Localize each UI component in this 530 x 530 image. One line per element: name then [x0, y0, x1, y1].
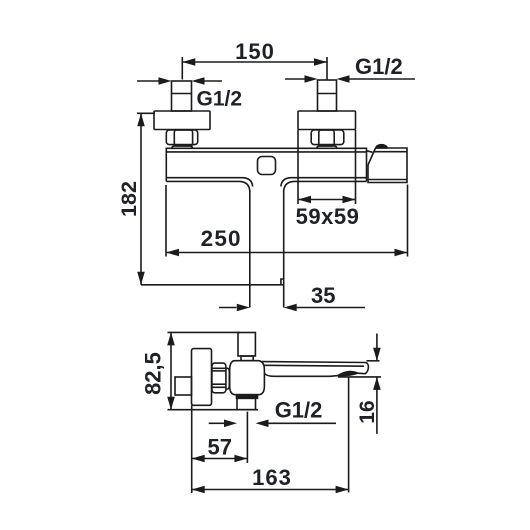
diverter knob side view [238, 333, 255, 357]
handle top inner line [374, 151, 407, 153]
svg-text:G1/2: G1/2 [355, 54, 403, 79]
handle neck diagonal [368, 148, 376, 165]
shower outlet neck [237, 395, 258, 399]
svg-text:82,5: 82,5 [141, 352, 166, 395]
wall supply stub side view [175, 377, 192, 395]
spout column left edge [249, 190, 251, 308]
dim 82,5 arrow up [167, 332, 175, 345]
dim G1/2 right-pipe arrow right [350, 78, 416, 80]
dim 82,5 bottom extension line [168, 409, 259, 411]
dim 59x59 dimension line [298, 199, 356, 201]
dim 150 extension line right (pipe 2 center) [326, 57, 328, 80]
svg-text:16: 16 [356, 400, 379, 423]
svg-text:35: 35 [311, 283, 335, 308]
dim 16 lower segment [376, 377, 378, 434]
dim 163 arrow right [336, 486, 349, 494]
dim 59x59 arrow left [298, 196, 311, 204]
dim 250 extension line right [407, 185, 409, 257]
dim G1/2 left-pipe arrow right [205, 80, 223, 82]
outlet centerline extension [246, 412, 248, 463]
left nut collar [172, 146, 193, 148]
dim 82,5 top extension line [168, 331, 241, 333]
dim 163 right extension line [348, 377, 350, 493]
dim G1/2 left-pipe arrow left [137, 80, 159, 82]
dim 82,5 dimension line [170, 332, 172, 409]
washer ring side view [226, 368, 229, 389]
dim G1/2 right-pipe arrow left [285, 78, 305, 80]
dim 35 arrow left [219, 307, 237, 309]
left inlet pipe [172, 81, 192, 111]
dim 150 arrow right [314, 58, 327, 66]
dim 57 arrow left [192, 455, 205, 463]
diverter knob neck [241, 356, 253, 361]
body bottom inner line left with fillet to spout column [166, 178, 252, 187]
spout top line [262, 361, 366, 364]
dim 59x59 extension line left [297, 130, 299, 204]
spout outlet notch [281, 279, 284, 285]
valve body barrel side view [230, 361, 265, 395]
svg-text:250: 250 [201, 226, 242, 251]
dim 182 dimension line [140, 113, 142, 284]
dim 182 top extension line [137, 112, 155, 114]
body bottom outer line left with fillet [166, 181, 250, 192]
dim 150 extension line left (pipe 1 center) [181, 57, 183, 80]
body bottom inner line right with fillet to spout column [281, 178, 367, 187]
spout tip [358, 363, 369, 374]
dim 163 dimension line [192, 489, 349, 491]
union nut side view [212, 363, 226, 393]
svg-text:G1/2: G1/2 [275, 398, 323, 423]
wall escutcheon side view [192, 349, 212, 406]
spout top chamfer line [264, 364, 365, 367]
dim 250 arrow left [166, 249, 179, 257]
dim 182 arrow down [137, 272, 145, 285]
handle pivot cap [376, 145, 387, 148]
dim 57 dimension line [192, 458, 248, 460]
bottom reference line [141, 284, 284, 286]
svg-text:G1/2: G1/2 [197, 88, 243, 111]
dim 59x59 extension line right [355, 130, 357, 204]
spout column right edge [283, 190, 285, 308]
handle neck small joint [367, 151, 373, 152]
right wall flange [298, 111, 356, 130]
dim 250 arrow right [395, 249, 408, 257]
left extension line wall face [191, 405, 193, 493]
dim 150 dimension line [182, 61, 327, 63]
svg-text:57: 57 [207, 435, 231, 460]
body bottom outer line right with fillet [284, 181, 367, 192]
dim 16 bottom extension line [338, 376, 381, 378]
dim 250 extension line left [165, 185, 167, 257]
dim G1/2 outlet arrow left [209, 422, 224, 424]
dim G1/2 outlet arrow right [269, 422, 337, 424]
dim 182 arrow up [137, 113, 145, 126]
dim 16 top extension line [366, 360, 379, 362]
shower outlet G1/2 side view [237, 398, 256, 409]
spout underside [264, 373, 338, 376]
dim 150 arrow left [182, 58, 195, 66]
svg-text:150: 150 [235, 39, 275, 64]
dim 163 arrow left [192, 486, 205, 494]
right union nut [311, 130, 344, 145]
mixer body outline [166, 148, 366, 181]
dim 82,5 arrow down [167, 397, 175, 410]
dim 250 dimension line [166, 252, 408, 254]
svg-text:59x59: 59x59 [296, 204, 360, 229]
body top inner line [166, 151, 366, 153]
right nut collar [317, 146, 337, 148]
right inlet pipe [318, 80, 337, 111]
dim 35 arrow right [297, 307, 366, 309]
left wall flange [154, 111, 210, 130]
dim 57 arrow right [234, 455, 247, 463]
handle bottom inner line [368, 179, 407, 181]
svg-text:163: 163 [252, 465, 292, 490]
spout outlet lip [338, 372, 358, 376]
dim 59x59 arrow right [343, 196, 356, 204]
left union nut [166, 130, 197, 145]
lever handle block [368, 148, 407, 183]
diverter knob front [258, 157, 276, 175]
svg-text:182: 182 [117, 181, 141, 217]
dim 16 upper segment [376, 334, 378, 361]
